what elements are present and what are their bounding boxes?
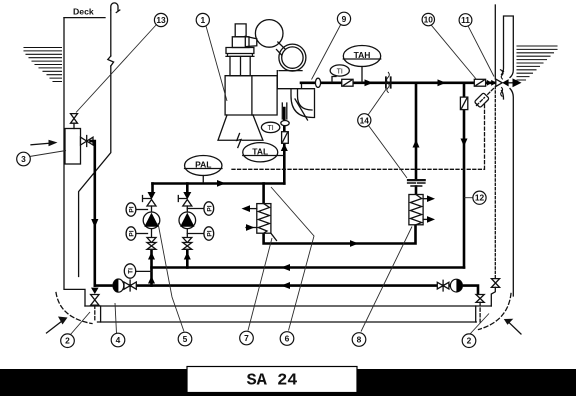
overboard shut-off valve solid half	[502, 79, 508, 86]
pump1 check valve arrow	[148, 192, 156, 200]
tank top line 2	[98, 321, 477, 323]
overboard instrument rect	[474, 79, 485, 86]
turbocharger inner circle	[282, 47, 303, 68]
PI pump2 lower	[204, 227, 214, 240]
pointer 12	[464, 197, 473, 199]
pump2 check valve body	[183, 200, 192, 207]
orifice oval on top pipe	[315, 78, 320, 87]
TI top ellipse	[330, 65, 349, 76]
PI pump1 upper	[126, 203, 136, 216]
svg-text:2: 2	[467, 336, 472, 346]
ship side bulkhead left	[64, 18, 85, 306]
deaerator symbol	[408, 179, 425, 181]
pump1 lower suction arrow	[148, 276, 155, 284]
PI pump1 lower	[126, 227, 136, 240]
label 7	[240, 331, 254, 345]
low suction valve	[91, 295, 99, 306]
inner hull line right	[494, 5, 496, 79]
pointer 14 down	[369, 126, 408, 179]
sea inlet arrow right bottom	[509, 322, 522, 334]
cooler8 bottom arrow	[423, 218, 427, 220]
engine stack flange	[226, 48, 254, 57]
cooler7 outlet run	[264, 225, 416, 244]
label 11	[459, 14, 472, 27]
svg-text:6: 6	[285, 334, 290, 344]
bottom sea water main	[95, 286, 478, 295]
svg-text:3: 3	[21, 154, 26, 164]
header flow arrow	[217, 180, 226, 187]
pump2 check valve arrow	[183, 192, 191, 200]
pump1 suction riser	[150, 250, 153, 286]
svg-text:SA 24: SA 24	[246, 372, 297, 391]
pointer 5	[158, 223, 184, 332]
svg-text:TAH: TAH	[354, 50, 371, 60]
pump2 impeller	[180, 213, 194, 227]
label 2 left	[61, 334, 75, 348]
charge air duct inner	[298, 89, 313, 110]
tilted instrument rect	[474, 93, 489, 108]
turbo link lines	[277, 42, 286, 55]
pointer 7	[248, 238, 272, 331]
return branch down at 464	[463, 83, 466, 268]
discharge corner valve	[476, 295, 484, 303]
overboard stub	[509, 82, 514, 84]
deaerator to cooler8	[415, 187, 418, 195]
pump1 circle	[143, 212, 160, 229]
label 1	[196, 13, 209, 26]
label 13	[154, 13, 167, 26]
bottom sea chest wall left	[100, 306, 102, 322]
overboard double arrows	[487, 80, 492, 86]
bottom sea chest wall right	[475, 306, 477, 322]
pump1 suction arrow	[148, 252, 155, 260]
pointer 8	[361, 227, 412, 332]
pump2 suction arrow	[184, 252, 191, 260]
overboard final arrow	[513, 78, 522, 87]
pump1 valve handle	[143, 196, 152, 202]
pointer 4	[115, 303, 117, 334]
svg-text:13: 13	[156, 15, 166, 25]
branch down at 416	[415, 83, 418, 179]
TI top stem	[332, 77, 336, 83]
svg-text:PI: PI	[129, 206, 136, 212]
pump2 circle	[179, 212, 196, 229]
svg-text:PAL: PAL	[195, 160, 211, 170]
pointer 2 right	[470, 314, 489, 335]
pump2 suction riser	[186, 250, 189, 268]
discharge dashed	[479, 302, 481, 322]
svg-text:Deck: Deck	[73, 6, 94, 16]
engine block	[225, 76, 277, 115]
cooler8 body	[409, 195, 423, 225]
mid pipe flow arrow	[350, 240, 359, 247]
svg-text:9: 9	[342, 14, 347, 24]
riser into engine	[283, 108, 286, 184]
main outlet pipe top	[301, 82, 496, 85]
TI engine ellipse	[261, 122, 279, 132]
pump1 lower check	[147, 238, 156, 243]
svg-text:11: 11	[461, 15, 470, 25]
bilge hull dashed curve left	[56, 293, 92, 324]
pump2 stem	[186, 206, 188, 238]
svg-text:10: 10	[424, 15, 434, 25]
low suction dashed	[94, 305, 96, 322]
arrow into sea chest	[31, 143, 50, 145]
label 3	[17, 152, 31, 166]
engine stack rect 2	[232, 37, 249, 48]
svg-text:TI: TI	[337, 68, 343, 75]
skirt break zigzag	[237, 134, 241, 148]
main pump right body	[450, 279, 462, 292]
flow instrument rect top pipe	[342, 79, 353, 86]
tilted instrument leads	[477, 89, 494, 106]
TAH stem	[361, 67, 363, 83]
sea inlet arrow left bottom	[47, 321, 63, 333]
title box	[187, 367, 357, 393]
engine connector duct	[245, 36, 257, 46]
riser up arrow to engine x416	[413, 140, 420, 148]
low suction branch arrow	[91, 288, 99, 294]
pointer 13	[76, 25, 157, 113]
svg-text:8: 8	[357, 335, 362, 345]
label 9	[337, 12, 350, 25]
inner hull line to tank top	[491, 287, 495, 306]
svg-text:14: 14	[360, 115, 370, 125]
svg-text:TI: TI	[267, 125, 273, 132]
svg-text:PI: PI	[129, 230, 136, 236]
pointer 3	[30, 151, 67, 157]
vent pipe	[79, 10, 111, 277]
main pump right valve	[437, 280, 449, 291]
pump2 lower check	[183, 238, 192, 243]
hull shell pair right	[502, 16, 514, 296]
svg-text:12: 12	[475, 193, 485, 203]
pointer 10	[431, 25, 477, 80]
title bar	[0, 369, 576, 396]
air filter circle	[255, 20, 283, 48]
label 14	[358, 114, 371, 127]
pump2 lower valve	[183, 243, 192, 250]
TI bottom ellipse	[124, 264, 135, 278]
pump1 impeller	[144, 213, 158, 227]
pointer 9	[312, 24, 342, 80]
riser up arrow	[281, 144, 288, 152]
charge air duct outer	[291, 89, 315, 118]
engine cylinder	[230, 56, 250, 75]
cooler7 bottom bevel	[271, 233, 277, 240]
label 8	[352, 333, 366, 347]
label 5	[178, 332, 192, 346]
engine block divider	[251, 76, 253, 115]
vent valve on sea chest	[71, 114, 78, 129]
PI pump2 upper	[204, 202, 214, 215]
cooler8 coil	[410, 195, 421, 225]
label 12	[473, 191, 486, 204]
sea chest box	[65, 129, 81, 165]
tank top line 1	[85, 305, 491, 307]
main pump left body	[113, 279, 124, 292]
header drop to pump2	[186, 184, 189, 193]
svg-text:1: 1	[200, 15, 205, 25]
return left arrow	[281, 264, 290, 271]
label 2 right	[462, 334, 476, 348]
pointer 1	[206, 26, 227, 101]
PAL ellipse	[185, 156, 222, 176]
svg-text:TAL: TAL	[252, 147, 268, 157]
top pipe arrow 1	[365, 79, 374, 86]
sea hatching left	[24, 48, 62, 82]
top pipe arrow 2	[438, 79, 447, 86]
instrument rect below pipe x464	[460, 97, 467, 110]
dashed control line	[232, 98, 485, 170]
turbo pedestal	[277, 71, 314, 89]
hull squiggle below	[501, 88, 503, 97]
duct diagonal	[295, 99, 308, 120]
TAH ellipse	[343, 46, 380, 67]
deck line	[64, 17, 105, 19]
expansion joint	[386, 77, 391, 87]
header drop to pump1	[151, 184, 154, 193]
svg-text:PI: PI	[206, 205, 213, 211]
TAL ellipse	[243, 143, 278, 162]
pointer 2 left	[71, 312, 91, 335]
TI riser oval	[281, 121, 289, 126]
svg-text:PI: PI	[206, 230, 213, 236]
pointer 14 up	[368, 89, 387, 116]
flow arrow down	[91, 219, 98, 228]
pipe break symbol	[108, 56, 114, 66]
hull squiggle above	[500, 70, 503, 79]
PAL stem	[202, 176, 204, 183]
label 4	[111, 333, 125, 347]
svg-text:7: 7	[244, 333, 249, 343]
bilge hull dashed curve right	[479, 294, 512, 330]
pointer 11	[468, 26, 494, 77]
air vent gooseneck	[111, 3, 120, 13]
pump1 check valve body	[147, 200, 156, 207]
down arrow x464	[461, 139, 468, 147]
sea chest outlet valve	[81, 136, 94, 147]
main pump left valve	[124, 280, 136, 291]
sea hatching right	[517, 46, 557, 80]
cooler7 inlet drop	[262, 184, 265, 204]
label 10	[422, 13, 434, 25]
valve on inner hull line	[491, 279, 499, 288]
return run to pumps	[152, 266, 465, 269]
overboard shut-off valve hollow half	[496, 79, 502, 86]
cooler7 coil	[258, 204, 269, 234]
riser indicator rect	[282, 132, 289, 144]
pump1 stem	[151, 206, 153, 238]
cooler7 out arrow	[247, 208, 257, 210]
sea suction pipe down	[91, 141, 95, 286]
label 6	[280, 332, 294, 346]
bottom main left arrow	[281, 282, 290, 289]
svg-text:TI: TI	[128, 268, 135, 274]
pump1 lower valve	[147, 243, 156, 250]
svg-text:2: 2	[65, 336, 70, 346]
cooler7 body	[257, 204, 271, 234]
header pipe to engine	[153, 182, 285, 185]
engine skirt	[218, 115, 263, 140]
engine stack rect 1	[235, 24, 246, 37]
engine water inlet lines	[282, 103, 287, 119]
svg-text:5: 5	[183, 334, 188, 344]
cooler8 top arrow	[423, 198, 427, 200]
pump2 valve handle	[178, 196, 187, 202]
turbocharger outer circle	[279, 44, 306, 71]
pointer 6	[271, 187, 314, 331]
cooler7 in arrow	[246, 227, 257, 229]
svg-text:4: 4	[116, 335, 121, 345]
